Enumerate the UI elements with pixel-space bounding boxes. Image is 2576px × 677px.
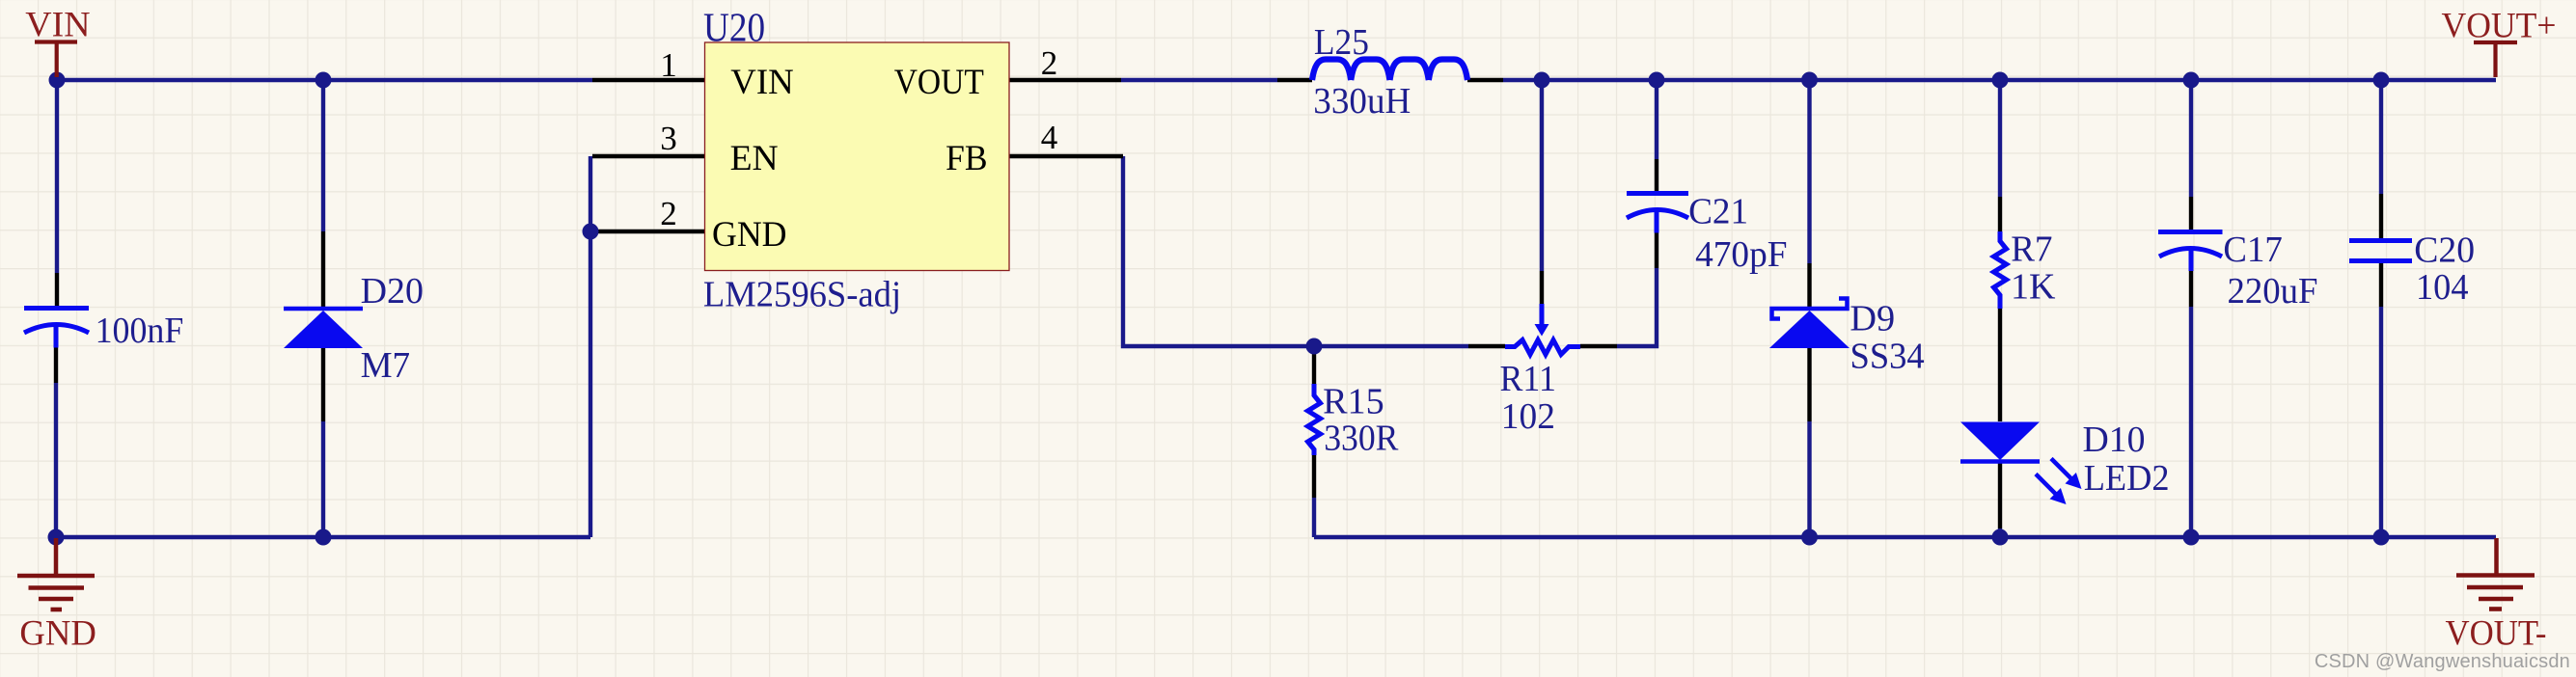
- svg-text:2: 2: [1041, 44, 1058, 82]
- svg-text:VIN: VIN: [25, 5, 90, 44]
- svg-text:U20: U20: [703, 7, 765, 51]
- svg-text:100nF: 100nF: [96, 311, 184, 351]
- svg-text:GND: GND: [19, 614, 96, 654]
- svg-text:1: 1: [660, 46, 677, 84]
- svg-text:GND: GND: [712, 215, 787, 255]
- svg-text:VOUT-: VOUT-: [2446, 614, 2547, 654]
- svg-text:330uH: 330uH: [1313, 81, 1411, 122]
- svg-text:R15: R15: [1323, 382, 1384, 422]
- svg-text:1K: 1K: [2011, 267, 2056, 308]
- svg-text:FB: FB: [945, 139, 987, 178]
- svg-text:220uF: 220uF: [2228, 271, 2318, 311]
- svg-text:VOUT+: VOUT+: [2442, 7, 2557, 46]
- svg-text:2: 2: [660, 195, 677, 232]
- svg-text:D20: D20: [361, 271, 424, 311]
- svg-text:470pF: 470pF: [1695, 234, 1787, 275]
- svg-text:L25: L25: [1314, 22, 1369, 63]
- svg-text:R7: R7: [2011, 230, 2052, 270]
- svg-text:104: 104: [2416, 267, 2469, 308]
- svg-text:3: 3: [660, 120, 677, 157]
- svg-text:LED2: LED2: [2084, 458, 2170, 499]
- svg-text:VIN: VIN: [730, 63, 793, 102]
- svg-text:102: 102: [1501, 396, 1555, 437]
- svg-text:330R: 330R: [1324, 419, 1399, 459]
- svg-text:CSDN @Wangwenshuaicsdn: CSDN @Wangwenshuaicsdn: [2315, 651, 2570, 672]
- svg-text:C17: C17: [2223, 230, 2282, 270]
- svg-text:SS34: SS34: [1850, 337, 1925, 377]
- svg-text:C21: C21: [1688, 192, 1748, 232]
- svg-text:M7: M7: [361, 345, 411, 386]
- svg-text:4: 4: [1041, 119, 1058, 156]
- svg-text:D10: D10: [2083, 420, 2146, 460]
- svg-text:EN: EN: [730, 139, 779, 178]
- svg-text:LM2596S-adj: LM2596S-adj: [703, 275, 901, 315]
- svg-text:R11: R11: [1500, 359, 1556, 399]
- svg-text:VOUT: VOUT: [894, 63, 984, 102]
- svg-text:C20: C20: [2414, 230, 2475, 271]
- svg-text:D9: D9: [1850, 299, 1895, 339]
